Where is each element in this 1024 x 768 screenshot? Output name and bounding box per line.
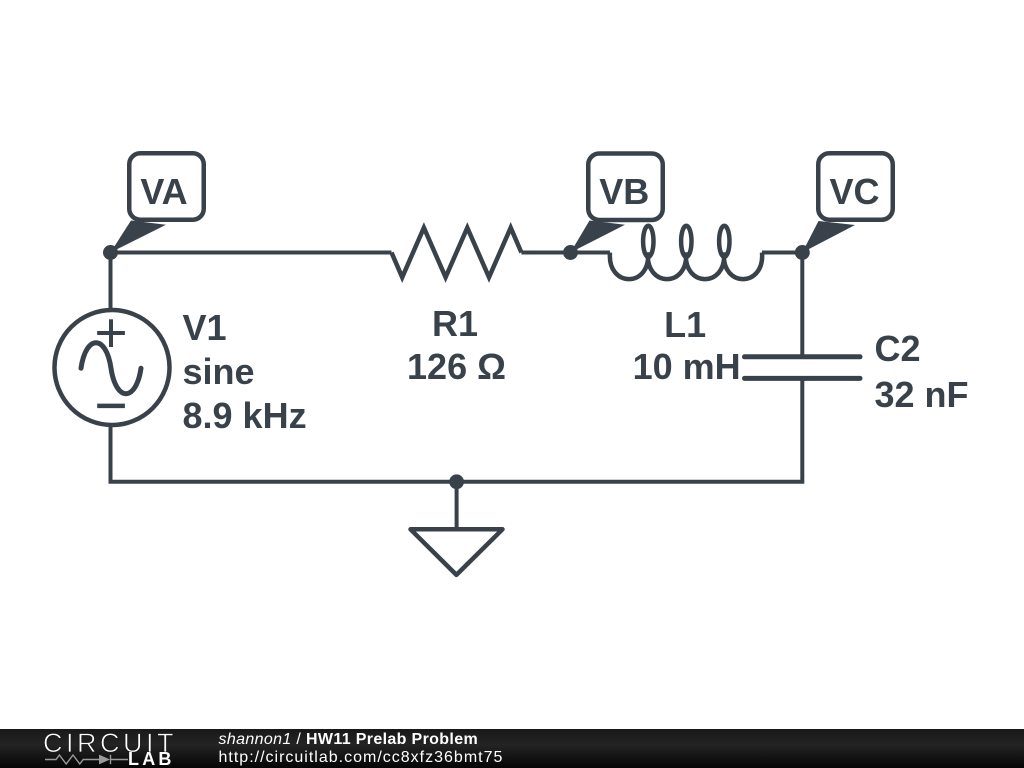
wire VA node to resistor xyxy=(111,253,392,315)
VC pointer wedge xyxy=(802,221,855,253)
inductor L1 xyxy=(610,226,762,279)
capacitor C2 xyxy=(745,357,861,379)
logo LAB text xyxy=(128,749,175,768)
VC flag box xyxy=(818,153,893,220)
V1 plus sign xyxy=(97,319,125,347)
footer url line xyxy=(219,749,504,767)
VB flag box xyxy=(588,154,663,221)
node C dot xyxy=(795,245,810,260)
wire resistor to VB node to inductor xyxy=(521,251,610,255)
V1 name label xyxy=(183,306,307,438)
V1 sine wave xyxy=(81,343,141,394)
voltage source V1 xyxy=(55,310,170,425)
VA label text xyxy=(140,170,187,214)
VA flag box xyxy=(129,153,204,220)
ground xyxy=(411,529,503,575)
VA pointer wedge xyxy=(111,221,167,253)
VB pointer wedge xyxy=(571,221,626,253)
C2 name label xyxy=(875,327,921,371)
L1 name label xyxy=(664,303,706,347)
R1 value label xyxy=(407,345,506,389)
ground node dot xyxy=(449,474,464,489)
C2 value label xyxy=(875,373,969,417)
wire ground stub xyxy=(455,482,459,529)
V1 minus sign xyxy=(97,404,125,409)
VB label text xyxy=(599,170,649,214)
footer title line xyxy=(219,731,479,749)
R1 name label xyxy=(432,302,478,346)
wire bottom rail xyxy=(111,378,803,481)
logo CIRCUIT text xyxy=(43,728,177,759)
resistor R1 xyxy=(392,228,522,278)
wire inductor to VC node xyxy=(762,253,802,357)
VC label text xyxy=(829,170,879,214)
node B dot xyxy=(563,245,578,260)
footer bar xyxy=(0,729,1024,768)
L1 value label xyxy=(633,345,741,389)
node A dot xyxy=(103,245,118,260)
